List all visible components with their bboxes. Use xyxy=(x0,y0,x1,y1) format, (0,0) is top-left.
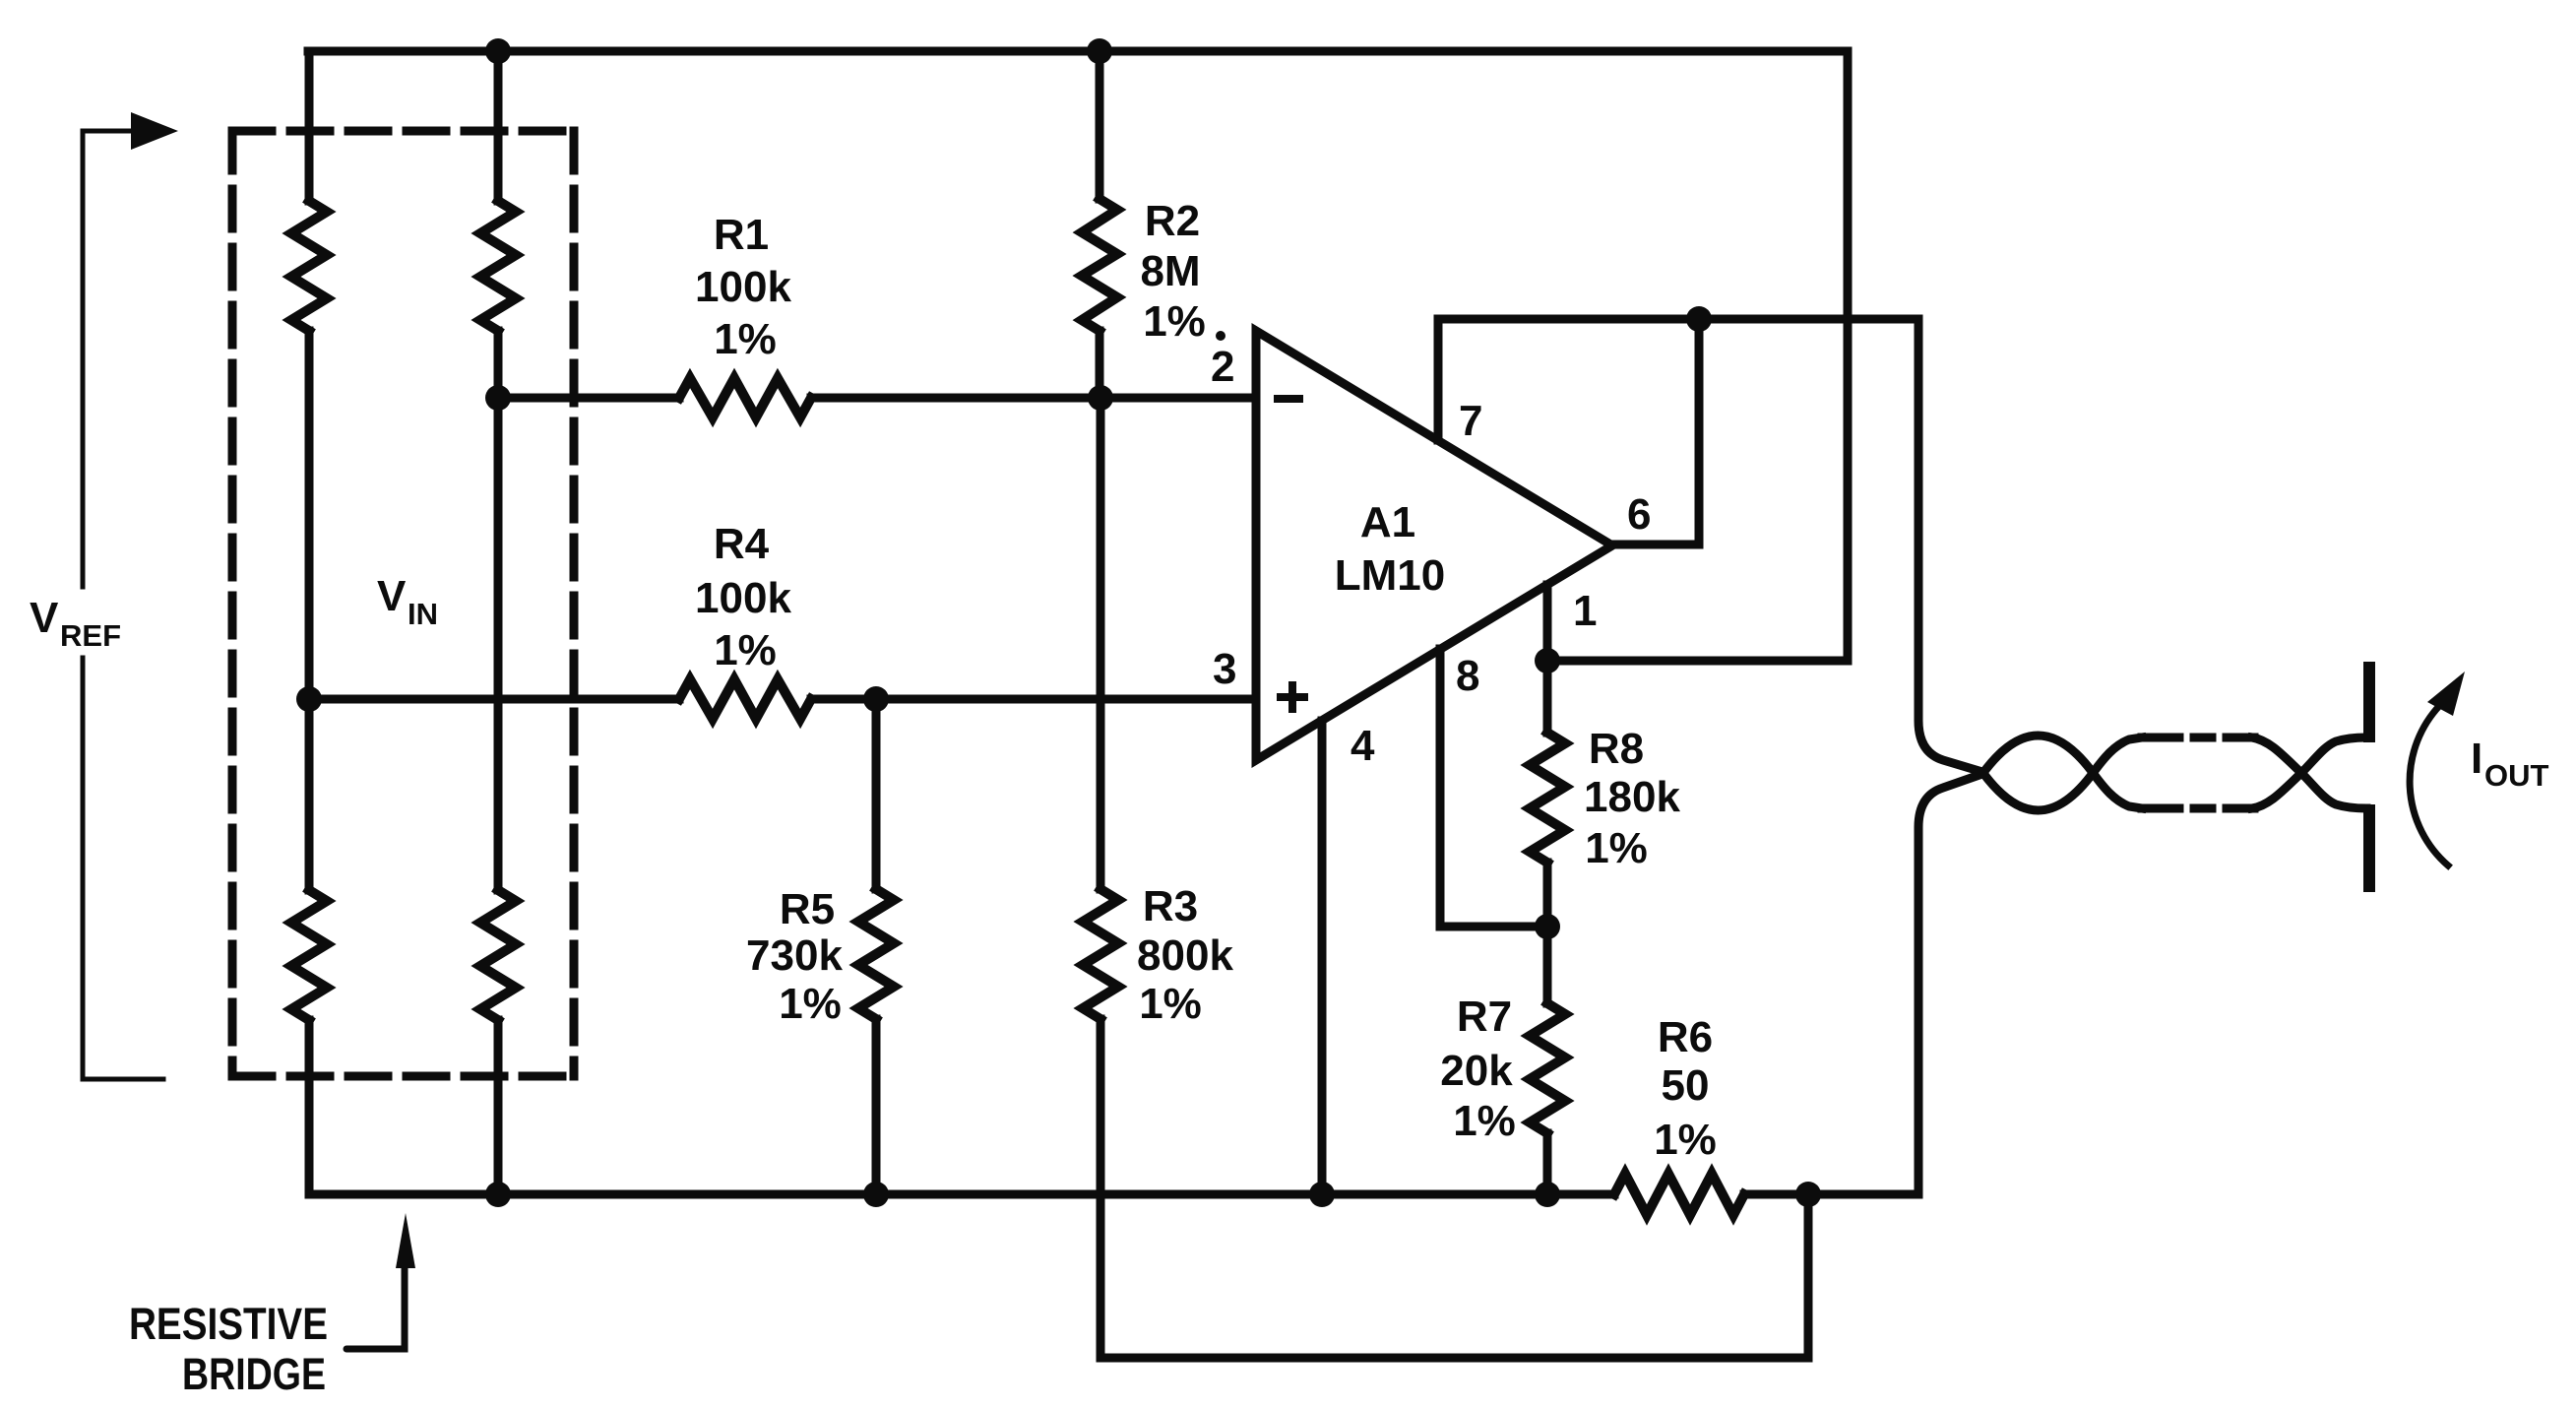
svg-text:1%: 1% xyxy=(1585,824,1648,872)
svg-text:R2: R2 xyxy=(1145,197,1200,245)
wire twisted pair right crossing upper-to-lower xyxy=(2252,737,2366,808)
dashed box resistive bridge top edge xyxy=(232,127,574,136)
wire R1 right lead to node 2 xyxy=(811,394,1100,403)
wire twisted pair dashed lower run xyxy=(2142,804,2254,813)
node R8/R7 junction xyxy=(1535,914,1560,939)
arrowhead IOUT xyxy=(2427,672,2465,716)
label VIN xyxy=(377,572,438,631)
node pin 4 bottom xyxy=(1309,1182,1335,1207)
wire R2 bottom lead xyxy=(1096,331,1104,398)
wire VREF bracket xyxy=(83,131,163,1079)
svg-text:LM10: LM10 xyxy=(1335,551,1445,600)
svg-text:1: 1 xyxy=(1573,587,1597,635)
resistor bridge lower-right xyxy=(480,890,516,1020)
node pin6 feedback on pin 7 wire xyxy=(1686,306,1712,332)
wire twisted pair dashed upper run xyxy=(2142,734,2254,742)
wire left bridge arm middle xyxy=(305,331,314,890)
label R7 20k 1% xyxy=(1440,993,1516,1145)
svg-text:2: 2 xyxy=(1211,343,1234,391)
wire twisted pair lower conductor from output rail xyxy=(1918,736,2142,1194)
wire R8 top lead xyxy=(1543,661,1552,733)
svg-text:1%: 1% xyxy=(1654,1116,1717,1164)
wire R7 bottom lead xyxy=(1543,1133,1552,1194)
resistor bridge upper-right xyxy=(480,201,516,331)
svg-text:1%: 1% xyxy=(714,626,777,674)
svg-text:V: V xyxy=(30,594,59,642)
svg-text:100k: 100k xyxy=(695,574,791,622)
resistor bridge upper-left xyxy=(291,201,327,331)
svg-text:180k: 180k xyxy=(1584,773,1680,821)
wire top supply rail xyxy=(308,47,1848,56)
node bridge top right on rail xyxy=(485,38,511,64)
op-amp plus input mark xyxy=(1277,681,1308,713)
resistor R7 xyxy=(1530,1003,1565,1133)
svg-text:4: 4 xyxy=(1351,722,1375,770)
svg-text:730k: 730k xyxy=(746,931,843,980)
wire pin 7 vertical xyxy=(1434,319,1443,440)
wire R3 top lead from node 2 xyxy=(1097,398,1105,889)
svg-text:1%: 1% xyxy=(779,980,842,1028)
node R2 top on rail xyxy=(1087,38,1112,64)
label R2 8M 1% xyxy=(1140,197,1205,346)
label R6 50 1% xyxy=(1654,1013,1717,1164)
svg-text:R7: R7 xyxy=(1457,993,1512,1041)
svg-text:R8: R8 xyxy=(1589,725,1644,773)
label A1 LM10 xyxy=(1335,498,1445,600)
wire right bridge arm upper xyxy=(494,51,503,201)
svg-text:R5: R5 xyxy=(780,885,835,933)
svg-text:IN: IN xyxy=(408,597,438,631)
wire right vertical from top rail down to pin 1 net xyxy=(1844,51,1853,661)
wire R5 top lead xyxy=(872,699,881,889)
label pin 3 xyxy=(1213,645,1236,693)
svg-text:1%: 1% xyxy=(714,315,777,363)
wire twisted pair right crossing lower-to-upper xyxy=(2252,737,2366,808)
resistor bridge lower-left xyxy=(291,890,327,1020)
wire R5 bottom lead xyxy=(872,1019,881,1194)
wire left bridge arm upper xyxy=(305,51,314,201)
wire R1 left lead xyxy=(498,394,679,403)
svg-text:3: 3 xyxy=(1213,645,1236,693)
op-amp A1 triangle xyxy=(1256,331,1612,760)
arrowhead resistive bridge leader xyxy=(396,1213,415,1268)
arrow VREF xyxy=(131,112,178,150)
wire R4 right lead / pin 3 lead into op-amp xyxy=(811,695,1256,704)
svg-text:R1: R1 xyxy=(714,211,769,259)
svg-text:I: I xyxy=(2471,735,2482,783)
dashed box resistive bridge right edge xyxy=(570,131,579,1076)
wire pin 1 horizontal to right vertical xyxy=(1547,657,1848,666)
svg-text:RESISTIVE: RESISTIVE xyxy=(129,1299,328,1349)
svg-text:800k: 800k xyxy=(1137,931,1233,980)
svg-text:8M: 8M xyxy=(1140,247,1200,295)
svg-text:V: V xyxy=(377,572,407,620)
svg-text:REF: REF xyxy=(60,618,121,653)
svg-text:R4: R4 xyxy=(714,520,770,568)
wire pin 8 horizontal to R8/R7 node xyxy=(1440,923,1547,931)
node R7 bottom xyxy=(1535,1182,1560,1207)
wire pin 2 lead into op-amp xyxy=(1100,394,1256,403)
label R4 100k 1% xyxy=(695,520,791,674)
resistor R8 xyxy=(1530,733,1565,863)
label pin 2 with dot xyxy=(1211,331,1234,391)
label VREF xyxy=(30,594,121,653)
svg-text:1%: 1% xyxy=(1453,1097,1516,1145)
svg-text:A1: A1 xyxy=(1360,498,1415,546)
svg-text:OUT: OUT xyxy=(2484,758,2549,793)
label pin 8 xyxy=(1456,652,1479,700)
svg-text:6: 6 xyxy=(1627,490,1651,539)
wire pin 6 vertical up to pin 7 net xyxy=(1695,319,1704,544)
resistor R2 xyxy=(1082,199,1117,331)
svg-text:R6: R6 xyxy=(1658,1013,1713,1061)
node R5 bottom xyxy=(863,1182,889,1207)
svg-text:100k: 100k xyxy=(695,263,791,311)
resistor R3 xyxy=(1083,889,1118,1019)
dashed box resistive bridge left edge xyxy=(228,131,237,1076)
svg-text:R3: R3 xyxy=(1143,882,1198,930)
arrow IOUT arc xyxy=(2410,705,2448,865)
terminal bar upper xyxy=(2363,668,2375,737)
node pin 1 / R8 top xyxy=(1535,648,1560,673)
resistor R5 xyxy=(858,889,894,1019)
svg-text:8: 8 xyxy=(1456,652,1479,700)
svg-text:7: 7 xyxy=(1459,397,1482,445)
wire R7 top lead xyxy=(1543,927,1552,1003)
resistor R4 xyxy=(679,679,811,719)
wire bottom rail right of R6 xyxy=(1744,1190,1918,1199)
wire feedback vertical from R6 node down xyxy=(1804,1194,1813,1358)
dashed box resistive bridge bottom edge xyxy=(232,1072,574,1081)
svg-text:BRIDGE: BRIDGE xyxy=(182,1349,326,1399)
label pin 6 xyxy=(1627,490,1651,539)
label R1 100k 1% xyxy=(695,211,791,363)
svg-text:1%: 1% xyxy=(1143,297,1206,346)
svg-text:20k: 20k xyxy=(1440,1047,1513,1095)
wire twisted pair upper conductor from pin7 net xyxy=(1918,319,2142,810)
node bridge bottom right arm xyxy=(485,1182,511,1207)
wire pin 1 stub from op-amp xyxy=(1543,585,1552,661)
wire pin 8 vertical xyxy=(1436,649,1445,927)
wire left bridge arm lower to bottom rail xyxy=(305,1020,314,1194)
wire R8 bottom lead xyxy=(1543,863,1552,927)
label RESISTIVE BRIDGE xyxy=(129,1299,328,1399)
wire R2 top lead xyxy=(1096,51,1104,199)
wire R3 bottom lead crossing bottom rail xyxy=(1097,1019,1105,1358)
node R6 right / feedback xyxy=(1795,1182,1821,1207)
label pin 7 xyxy=(1459,397,1482,445)
wire right bridge arm middle xyxy=(494,331,503,890)
resistor R6 xyxy=(1614,1174,1744,1215)
svg-text:1%: 1% xyxy=(1139,980,1202,1028)
label IOUT xyxy=(2471,735,2549,793)
wire leader resistive bridge xyxy=(346,1267,405,1349)
label R3 800k 1% xyxy=(1137,882,1233,1028)
terminal bar lower xyxy=(2363,810,2375,886)
node R5 top xyxy=(863,686,889,712)
svg-text:50: 50 xyxy=(1662,1061,1710,1110)
resistor R1 xyxy=(679,378,811,417)
wire pin 4 vertical to bottom rail xyxy=(1318,721,1327,1194)
op-amp minus input mark xyxy=(1274,395,1303,403)
label R8 180k 1% xyxy=(1584,725,1680,872)
label pin 1 xyxy=(1573,587,1597,635)
node R1 tap on right bridge arm xyxy=(485,385,511,411)
wire bottom-most return to R3 xyxy=(1100,1354,1808,1363)
label pin 4 xyxy=(1351,722,1375,770)
wire pin 6 stub xyxy=(1612,541,1699,549)
node bridge left mid tap xyxy=(296,686,322,712)
wire R4 left lead xyxy=(309,695,679,704)
wire right bridge arm lower to bottom rail xyxy=(494,1020,503,1194)
node inverting input net xyxy=(1088,385,1113,411)
label R5 730k 1% xyxy=(746,885,843,1028)
wire pin 7 horizontal to right xyxy=(1438,315,1918,324)
wire bottom rail left of R6 xyxy=(309,1190,1614,1199)
